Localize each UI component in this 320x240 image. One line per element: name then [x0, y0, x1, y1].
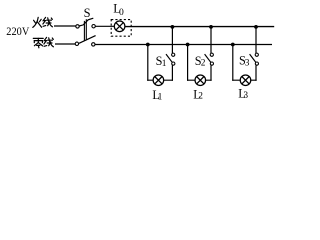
wire branch 2 bottom	[187, 79, 212, 81]
svg-text:0: 0	[119, 7, 124, 18]
wire S-to-L0	[95, 25, 114, 27]
node live junction 1	[171, 25, 175, 29]
dashed box around L0	[111, 20, 131, 37]
node neutral junction 2	[186, 43, 190, 47]
lamp L2	[195, 75, 206, 86]
node live junction 2	[209, 25, 213, 29]
wire switch branch 2 vertical upper	[210, 27, 212, 53]
node neutral junction 3	[231, 43, 235, 47]
svg-text:3: 3	[245, 59, 250, 69]
svg-text:2: 2	[201, 59, 206, 69]
switch S1	[166, 53, 175, 65]
wire switch branch 2 vertical lower	[210, 65, 212, 81]
lamp L3	[240, 75, 251, 86]
lamp L1	[153, 75, 164, 86]
node neutral junction 1	[146, 43, 150, 47]
wire neutral bus	[95, 44, 272, 46]
wire branch 3 bottom	[232, 79, 256, 81]
svg-text:1: 1	[158, 93, 163, 103]
svg-text:3: 3	[243, 91, 248, 101]
wire live bus	[125, 26, 274, 28]
label 火线 (live wire)	[33, 17, 53, 27]
switch S2	[205, 53, 214, 65]
switch S (double-pole)	[75, 18, 95, 46]
wire lamp branch 1 vertical	[147, 45, 149, 81]
wire switch branch 1 vertical lower	[171, 65, 173, 81]
wire live-in	[54, 25, 76, 27]
wire lamp branch 3 vertical	[232, 45, 234, 81]
wire neutral-in	[55, 43, 75, 45]
svg-text:1: 1	[162, 59, 167, 69]
node live junction 3	[254, 25, 258, 29]
wire switch branch 1 vertical upper	[171, 27, 173, 53]
svg-text:220V: 220V	[6, 25, 30, 38]
label 零线 (neutral wire)	[33, 37, 53, 47]
switch S3	[250, 53, 259, 65]
lamp L0	[114, 21, 125, 32]
svg-text:S: S	[84, 6, 91, 20]
wire switch branch 3 vertical lower	[255, 65, 257, 81]
wire switch branch 3 vertical upper	[255, 27, 257, 53]
wire branch 1 bottom	[147, 79, 173, 81]
wire lamp branch 2 vertical	[187, 45, 189, 81]
svg-text:2: 2	[198, 92, 203, 102]
